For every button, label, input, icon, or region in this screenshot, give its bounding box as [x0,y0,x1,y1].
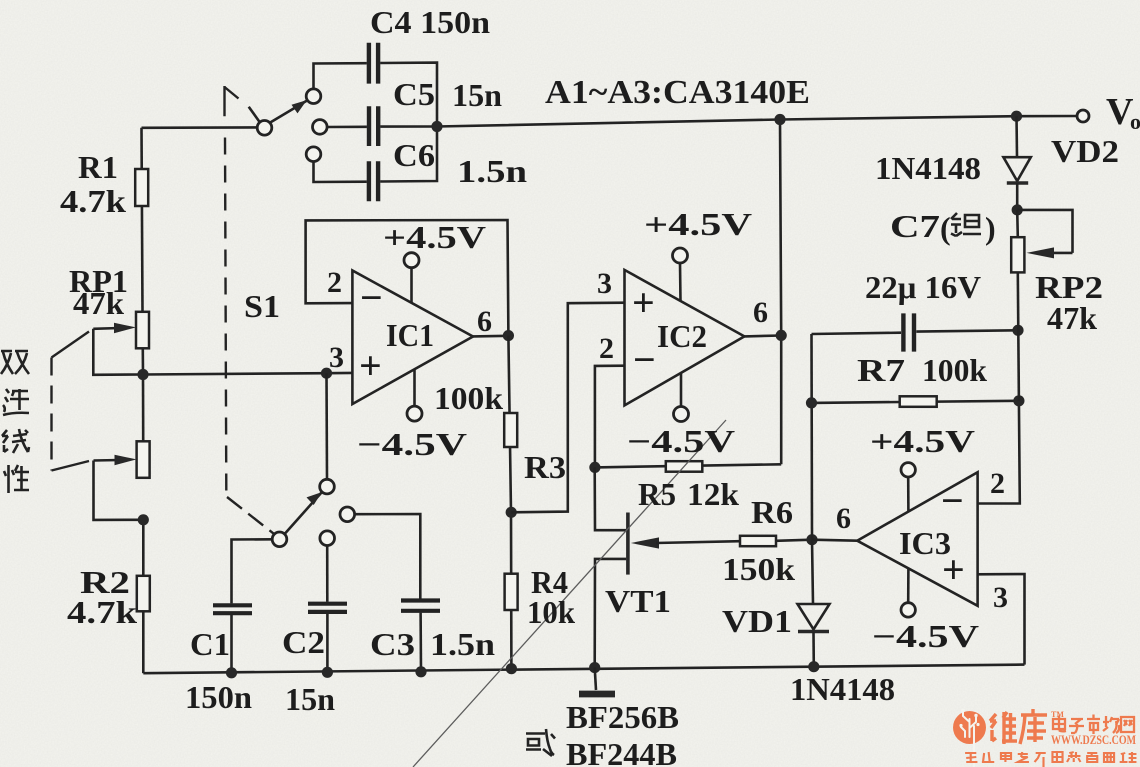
wire C7 R7 left column [810,334,813,540]
IC2 output wire [744,334,781,337]
svg-text:10k: 10k [527,594,575,630]
node S2 branch [321,368,332,379]
watermark market chars [1053,715,1134,735]
IC1 output wire [473,334,508,337]
wire C7 row right [916,330,1018,331]
svg-text:3: 3 [597,267,612,300]
IC2 -4.5V stub [674,373,689,422]
node top bus VD2 [1011,111,1022,122]
svg-text:S1: S1 [244,288,280,324]
switch S2 arm [285,492,322,534]
svg-text:(: ( [940,210,951,246]
svg-text:+: + [359,343,382,388]
switch S2 upper contact [320,479,335,494]
svg-text:BF244B: BF244B [566,736,677,767]
node VD1 bus [808,661,819,672]
wire C2 to bus [326,614,329,673]
svg-text:6: 6 [753,296,768,329]
wire node to IC3 apex [812,540,857,541]
resistor R6 [740,536,776,546]
svg-text:VT1: VT1 [605,583,671,619]
svg-text:A1~A3:CA3140E: A1~A3:CA3140E [545,74,810,111]
wire IC3 pin2 [978,401,1020,504]
diode VD1 [798,540,830,667]
svg-text:150k: 150k [722,551,795,587]
svg-text:4.7k: 4.7k [60,183,126,219]
switch S2 right contact [340,507,355,522]
potentiometer RP1 lower body [137,441,150,478]
wire S2 pole to C1 [232,539,273,603]
wire R5 row [595,464,782,467]
wire C6 branch right [380,127,437,182]
svg-text:1N4148: 1N4148 [875,150,981,186]
resistor R3 [504,413,517,447]
svg-text:C5: C5 [393,76,435,112]
svg-text:+: + [632,280,655,325]
svg-text:+4.5V: +4.5V [383,219,486,255]
wire RP2 column [1018,272,1019,400]
wire IC3 pin3 [978,574,1025,665]
svg-text:IC1: IC1 [386,317,434,353]
wire C5 row right [380,125,437,128]
node IC1 output [503,330,514,341]
diode VD2 [1003,116,1030,210]
wire C4 branch left [314,63,367,89]
op-amp IC2 [625,270,745,406]
svg-text:+4.5V: +4.5V [870,423,975,459]
wire bottom bus [143,665,1024,674]
node R3 R4 junction [506,507,517,518]
svg-text:TM: TM [1051,710,1064,719]
svg-text:15n: 15n [285,681,335,717]
wire wiper row to IC1 pin3 [143,373,352,375]
switch S1 middle contact [313,120,328,135]
IC3 +4.5V stub [901,463,915,512]
svg-text:12k: 12k [687,476,739,512]
IC2 +4.5V stub [673,248,688,302]
svg-text:−: − [941,478,964,523]
svg-text:47k: 47k [1047,300,1097,336]
VT1 gate arrow [631,537,740,548]
svg-text:+4.5V: +4.5V [644,206,752,242]
wire VT1 drain [595,467,627,530]
capacitor C3 [401,601,440,611]
svg-text:o: o [1130,109,1140,134]
svg-text:22μ 16V: 22μ 16V [865,269,981,305]
wire R6 to node [776,540,812,541]
node R4 bus [506,663,517,674]
capacitor C1 [213,605,252,613]
label C7 tantalum char [951,213,981,236]
svg-text:1.5n: 1.5n [457,153,527,189]
wire S2 right contact to C3 [354,514,420,599]
svg-text:47k: 47k [73,285,124,321]
resistor R2 [137,576,150,612]
node VD2 RP2 [1012,204,1023,215]
watermark logo circle [953,709,986,767]
S1 dashed link hook [225,86,239,116]
wire S2 mid contact to C2 [326,545,329,602]
svg-text:C2: C2 [282,624,325,660]
svg-text:2: 2 [990,467,1005,500]
watermark slogan chars [965,752,1136,767]
svg-text:6: 6 [477,305,492,338]
svg-text:BF256B: BF256B [566,699,679,735]
capacitor C4 [369,43,378,84]
svg-text:VD2: VD2 [1051,133,1119,169]
output terminal Vo [1077,110,1089,122]
transistor VT1 channel [626,513,630,575]
switch S1 arm [270,100,308,123]
node IC2 output [776,330,787,341]
switch S2 pole [272,532,287,547]
resistor R1 [135,169,148,206]
svg-text:6: 6 [836,502,851,535]
IC1 -4.5V stub [407,369,422,421]
resistor R4 [505,574,518,610]
wire IC2 pin2 [595,366,625,468]
label Vo [1106,91,1140,134]
wire R3 junction to IC2 pin3 [511,303,624,513]
capacitor C2 [308,604,347,612]
svg-text:C7: C7 [890,208,940,244]
svg-text:R6: R6 [751,494,793,530]
S1 dashed link diagonal to S2 [227,497,275,534]
wire VT1 source [595,559,627,668]
capacitor C6 [369,161,378,201]
node C7 right [1012,325,1023,336]
wire C4 branch right [380,63,437,127]
svg-text:C4 150n: C4 150n [370,4,490,40]
svg-text:IC2: IC2 [657,318,707,354]
node R7 left [806,397,817,408]
svg-text:VD1: VD1 [722,603,792,639]
svg-text:C6: C6 [393,137,435,173]
svg-text:R5: R5 [638,476,676,512]
wire R1 column [142,128,143,312]
wire RP1 to R2 column [142,520,145,576]
switch S1 upper contact [306,89,321,104]
scan noise texture [0,0,1,1]
svg-text:3: 3 [993,581,1008,614]
svg-text:100k: 100k [922,352,987,388]
wire C1 to bus [230,615,233,673]
node C3 bus [415,666,426,677]
svg-text:2: 2 [599,332,614,365]
wire RP1 mid column [142,375,145,442]
svg-text:+: + [942,547,965,592]
svg-text:R3: R3 [524,449,566,485]
node R6 IC3 [806,534,817,545]
svg-text:C3: C3 [370,626,415,662]
watermark weiku big chars [990,709,1047,744]
dashed gang bracket [52,332,90,471]
potentiometer RP1 upper body [136,312,149,375]
RP2 wiper arrow [1017,210,1072,259]
wire IC2 output column [780,120,781,465]
resistor R5 [666,461,703,472]
node RP1 lower [138,514,149,525]
svg-text:3: 3 [329,341,344,374]
svg-text:−4.5V: −4.5V [627,423,735,459]
node wiper row [137,369,148,380]
wire top output bus [437,116,1077,127]
capacitor C5 [369,106,378,146]
op-amp IC3 [857,472,977,606]
svg-text:−4.5V: −4.5V [357,426,467,462]
RP1 lower wiper arrow [94,455,144,520]
wire R2 to bottom bus [142,611,145,673]
wire C6 branch left [314,161,367,182]
switch S2 middle contact [320,531,335,546]
switch S1 linkage tail [249,107,260,122]
svg-text:2: 2 [327,266,342,299]
scan artifact diagonal line [413,420,726,767]
svg-text:−: − [360,275,383,320]
IC3 -4.5V stub [901,569,915,618]
op-amp IC1 [352,271,473,405]
svg-text:1N4148: 1N4148 [790,671,895,707]
svg-text:4.7k: 4.7k [67,594,137,630]
svg-text:15n: 15n [452,77,502,113]
svg-text:WWW.DZSC.COM: WWW.DZSC.COM [1051,733,1136,747]
node R5 left [589,462,600,473]
switch S1 pole [257,121,272,136]
label or chinese [526,729,555,756]
ground [579,668,615,694]
capacitor C7 [903,313,914,351]
node C1 bus [226,667,237,678]
node top bus IC2 [774,114,785,125]
wire C3 to bus [419,613,422,672]
IC1 +4.5V stub [404,253,419,304]
S1 dashed link line [225,138,226,492]
svg-text:C1: C1 [190,626,230,662]
svg-text:1.5n: 1.5n [430,626,495,662]
wire C5 row [327,126,367,129]
node ground bus [589,662,600,673]
wire C7 row left [812,333,902,334]
wire R1 top row [142,126,258,129]
wire S2 upper contact drop [325,373,328,479]
RP1 upper wiper arrow [93,323,143,375]
svg-text:): ) [985,210,996,246]
op-amp IC1 feedback box [306,220,509,336]
node C2 bus [322,667,333,678]
resistor R7 [900,396,937,407]
svg-text:100k: 100k [434,380,503,416]
label dual-gang linear vertical chinese [1,351,29,493]
node top bus C5 [431,121,442,132]
svg-text:150n: 150n [185,679,252,715]
svg-text:R7: R7 [857,352,905,388]
node R7 right [1013,395,1024,406]
svg-text:R1: R1 [78,149,118,185]
potentiometer RP2 [1011,210,1024,273]
svg-text:−4.5V: −4.5V [872,618,979,654]
wire R3 column [508,336,511,669]
svg-text:−: − [633,337,656,382]
switch S1 lower contact [306,147,321,162]
wire R7 row [812,401,1019,403]
